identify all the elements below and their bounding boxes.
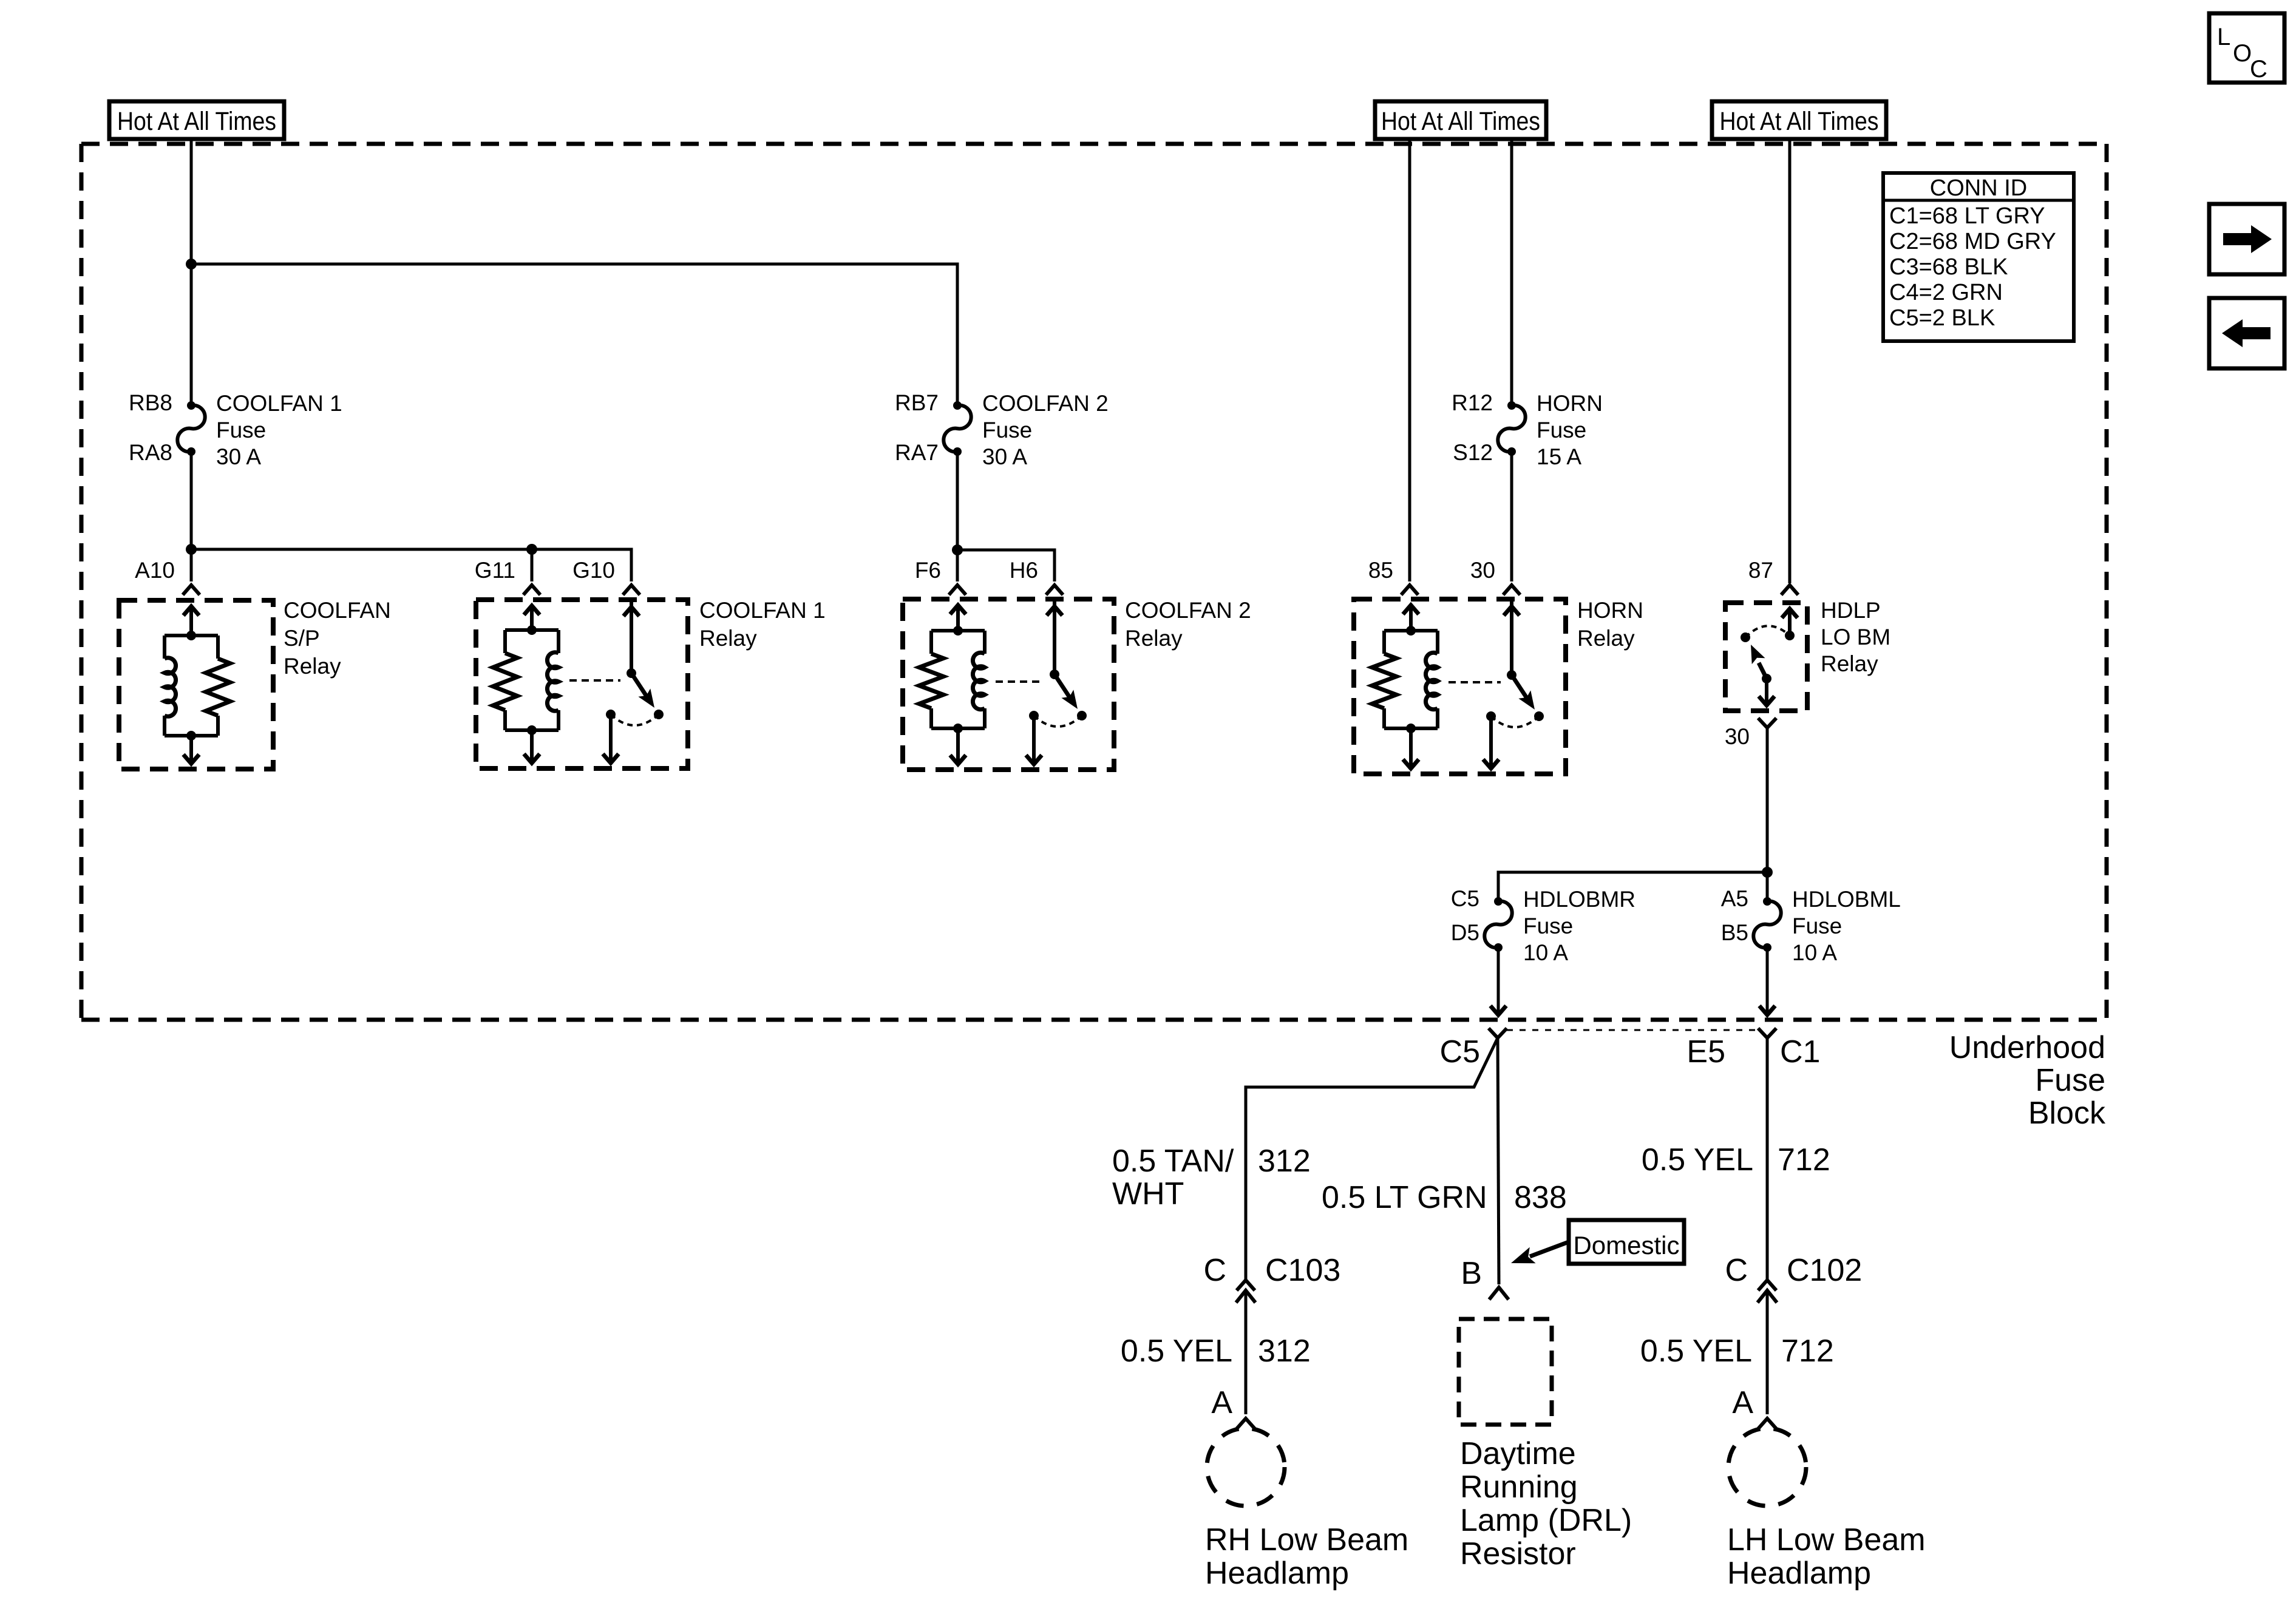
label 0.5 YEL 712 upper [1642, 1142, 1830, 1178]
relay HORN [1354, 598, 1643, 774]
wire C102 to LH headlamp [1766, 1290, 1769, 1414]
svg-text:C: C [2250, 56, 2267, 83]
svg-text:C: C [1725, 1253, 1748, 1288]
svg-text:87: 87 [1748, 558, 1773, 583]
Daytime Running Lamp (DRL) Resistor [1459, 1319, 1632, 1571]
wire from Hot box 1 down [190, 139, 193, 405]
svg-text:A: A [1211, 1385, 1232, 1420]
relay COOLFAN 1 [476, 598, 826, 768]
pin 85 connector [1368, 558, 1418, 595]
pin 30 connector [1470, 558, 1520, 595]
svg-text:COOLFAN 2: COOLFAN 2 [1125, 598, 1251, 623]
svg-text:312: 312 [1258, 1144, 1311, 1179]
svg-text:A10: A10 [135, 558, 175, 583]
junction at top branch [186, 259, 197, 269]
connector C5 [1440, 1028, 1507, 1070]
svg-text:10 A: 10 A [1792, 940, 1837, 965]
svg-text:O: O [2233, 40, 2252, 67]
svg-text:C1: C1 [1780, 1034, 1820, 1070]
pin G11 connector [475, 558, 540, 595]
wire HDLOBMR fuse to block edge [1497, 949, 1500, 1015]
svg-text:B5: B5 [1721, 920, 1748, 945]
svg-text:0.5 TAN/: 0.5 TAN/ [1112, 1144, 1234, 1179]
fuse block connector dashed line [1507, 1029, 1758, 1031]
Domestic callout box [1511, 1220, 1684, 1264]
svg-text:Hot At All Times: Hot At All Times [1720, 107, 1879, 136]
wire HORN fuse to pin 30 [1510, 452, 1513, 581]
right arrow box [2209, 204, 2284, 274]
svg-text:0.5 LT GRN: 0.5 LT GRN [1322, 1180, 1487, 1215]
label 0.5 YEL 712 lower [1640, 1334, 1834, 1369]
svg-text:HORN: HORN [1577, 598, 1643, 623]
pin A10 connector [135, 558, 200, 595]
wire C103 to RH headlamp [1245, 1290, 1248, 1414]
wire C5 down to DRL resistor [1498, 1038, 1499, 1284]
wire top horizontal branch to COOLFAN 2 fuse [191, 264, 957, 405]
fuse HDLOBMR [1451, 886, 1635, 965]
pin H6 connector [1010, 558, 1063, 595]
fuse HORN [1452, 390, 1603, 469]
svg-text:C2=68 MD GRY: C2=68 MD GRY [1889, 229, 2056, 254]
svg-text:L: L [2217, 24, 2230, 50]
svg-text:WHT: WHT [1112, 1176, 1184, 1212]
svg-text:HORN: HORN [1537, 391, 1603, 416]
svg-text:838: 838 [1514, 1180, 1567, 1215]
left arrow box [2209, 298, 2284, 368]
connector A RH [1211, 1385, 1255, 1429]
wire branch to HDLOBMR fuse [1498, 872, 1767, 901]
svg-text:30 A: 30 A [216, 444, 261, 469]
svg-text:C4=2 GRN: C4=2 GRN [1889, 280, 2003, 305]
svg-text:85: 85 [1368, 558, 1393, 583]
svg-text:HDLP: HDLP [1821, 598, 1881, 623]
wire to G11 [531, 549, 534, 581]
svg-text:Fuse: Fuse [1792, 914, 1842, 938]
svg-text:Relay: Relay [699, 626, 757, 651]
connector E5 C1 [1686, 1028, 1820, 1070]
relay COOLFAN 2 [903, 598, 1251, 770]
svg-text:S/P: S/P [284, 626, 320, 651]
relay COOLFAN S/P [119, 598, 391, 769]
svg-text:Relay: Relay [284, 654, 341, 679]
pin G10 connector [572, 558, 640, 595]
junction above HDLOBM fuses [1762, 867, 1773, 878]
svg-text:Relay: Relay [1577, 626, 1635, 651]
Hot At All Times box 2 [1375, 101, 1546, 139]
svg-text:COOLFAN 2: COOLFAN 2 [982, 391, 1109, 416]
underhood fuse block dashed border [81, 142, 2107, 146]
svg-text:712: 712 [1781, 1334, 1834, 1369]
svg-text:C3=68 BLK: C3=68 BLK [1889, 254, 2008, 280]
LOC legend box [2209, 13, 2284, 83]
wire pin30 down to fuses [1766, 728, 1769, 901]
wire HDLOBML fuse to block edge [1766, 949, 1769, 1015]
Underhood Fuse Block label [1949, 1030, 2106, 1131]
svg-text:312: 312 [1258, 1334, 1311, 1369]
wire Hot box 2 to pin 85 [1408, 139, 1411, 581]
svg-text:D5: D5 [1451, 920, 1479, 945]
svg-text:A5: A5 [1721, 886, 1748, 911]
svg-text:RA8: RA8 [129, 440, 172, 465]
svg-text:Fuse: Fuse [1537, 418, 1586, 442]
pin F6 connector [915, 558, 966, 595]
svg-text:RB7: RB7 [895, 390, 939, 415]
svg-text:0.5 YEL: 0.5 YEL [1640, 1334, 1752, 1369]
Hot At All Times box 3 [1712, 101, 1886, 139]
svg-text:Fuse: Fuse [216, 418, 266, 442]
svg-text:Daytime: Daytime [1460, 1436, 1576, 1471]
svg-text:C5: C5 [1451, 886, 1479, 911]
svg-text:Block: Block [2028, 1096, 2106, 1131]
svg-text:Running: Running [1460, 1470, 1578, 1505]
label 0.5 LT GRN 838 [1322, 1180, 1567, 1215]
svg-text:712: 712 [1778, 1142, 1830, 1178]
svg-text:30: 30 [1725, 724, 1750, 749]
wire Hot box 3 to pin 87 [1788, 139, 1792, 583]
svg-text:Fuse: Fuse [982, 418, 1032, 442]
svg-text:H6: H6 [1010, 558, 1038, 583]
svg-text:Headlamp: Headlamp [1205, 1556, 1349, 1591]
svg-text:Relay: Relay [1125, 626, 1183, 651]
junction below fuse 1 [186, 544, 197, 555]
wire fuse2 to F6 [956, 452, 959, 581]
svg-text:30: 30 [1470, 558, 1495, 583]
svg-text:Relay: Relay [1821, 651, 1878, 676]
label 0.5 YEL 312 [1121, 1334, 1311, 1369]
svg-text:COOLFAN 1: COOLFAN 1 [216, 391, 342, 416]
svg-text:15 A: 15 A [1537, 444, 1581, 469]
wire Hot box 2 to HORN fuse [1510, 139, 1513, 405]
RH Low Beam Headlamp [1205, 1428, 1408, 1591]
fuse HDLOBML [1721, 886, 1901, 965]
connector C102 [1725, 1253, 1862, 1303]
wire to H6 [957, 550, 1055, 581]
svg-text:RB8: RB8 [129, 390, 172, 415]
svg-text:LH Low Beam: LH Low Beam [1727, 1522, 1926, 1558]
connector B at DRL resistor [1461, 1256, 1509, 1300]
svg-text:B: B [1461, 1256, 1482, 1291]
svg-text:RA7: RA7 [895, 440, 939, 465]
wire C5 to C103 [1246, 1038, 1498, 1280]
svg-text:Lamp (DRL): Lamp (DRL) [1460, 1503, 1632, 1538]
svg-text:Fuse: Fuse [2035, 1063, 2105, 1098]
connector C103 [1203, 1253, 1340, 1303]
svg-text:LO BM: LO BM [1821, 625, 1890, 649]
svg-text:0.5 YEL: 0.5 YEL [1642, 1142, 1753, 1178]
fuse COOLFAN 2 [895, 390, 1109, 469]
svg-text:30 A: 30 A [982, 444, 1027, 469]
svg-text:10 A: 10 A [1523, 940, 1568, 965]
svg-text:A: A [1732, 1385, 1753, 1420]
connector A LH [1732, 1385, 1777, 1429]
svg-text:RH Low Beam: RH Low Beam [1205, 1522, 1408, 1558]
svg-text:Resistor: Resistor [1460, 1536, 1576, 1571]
svg-text:S12: S12 [1453, 440, 1493, 465]
svg-text:R12: R12 [1452, 390, 1493, 415]
svg-text:F6: F6 [915, 558, 941, 583]
svg-text:Fuse: Fuse [1523, 914, 1573, 938]
svg-text:0.5 YEL: 0.5 YEL [1121, 1334, 1232, 1369]
svg-text:G10: G10 [572, 558, 615, 583]
svg-text:Headlamp: Headlamp [1727, 1556, 1871, 1591]
svg-text:E5: E5 [1686, 1034, 1725, 1070]
wire horizontal to G11 G10 [191, 549, 631, 581]
CONN ID table [1883, 173, 2074, 341]
svg-text:HDLOBML: HDLOBML [1792, 887, 1901, 912]
junction at G11 branch [526, 544, 537, 555]
svg-text:Hot At All Times: Hot At All Times [117, 107, 276, 136]
relay HDLP LO BM [1725, 598, 1890, 711]
Hot At All Times box 1 [109, 101, 284, 139]
fuse COOLFAN 1 [129, 390, 342, 469]
svg-text:C5=2 BLK: C5=2 BLK [1889, 305, 1995, 331]
svg-text:C5: C5 [1440, 1034, 1480, 1070]
svg-text:COOLFAN: COOLFAN [284, 598, 391, 623]
svg-text:C103: C103 [1265, 1253, 1340, 1288]
svg-text:C102: C102 [1787, 1253, 1862, 1288]
svg-text:Domestic: Domestic [1573, 1231, 1679, 1259]
svg-text:HDLOBMR: HDLOBMR [1523, 887, 1635, 912]
svg-text:COOLFAN 1: COOLFAN 1 [699, 598, 826, 623]
wire E5 down to C102 [1766, 1038, 1769, 1280]
svg-text:C: C [1203, 1253, 1226, 1288]
svg-text:G11: G11 [475, 558, 515, 583]
label 0.5 TAN/WHT 312 [1112, 1144, 1311, 1212]
wire fuse1 to A10 [190, 452, 193, 581]
pin 87 connector [1748, 558, 1798, 595]
svg-text:Underhood: Underhood [1949, 1030, 2105, 1065]
svg-text:C1=68 LT GRY: C1=68 LT GRY [1889, 203, 2045, 229]
LH Low Beam Headlamp [1727, 1428, 1926, 1591]
svg-text:Hot At All Times: Hot At All Times [1381, 107, 1540, 136]
svg-text:CONN ID: CONN ID [1930, 175, 2027, 201]
junction below fuse 2 [952, 544, 963, 555]
pin 30 connector below HDLP relay [1725, 718, 1776, 749]
